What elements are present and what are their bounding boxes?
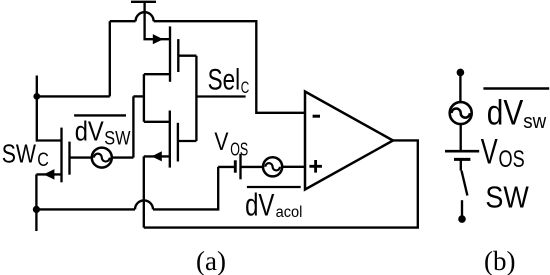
svg-text:Sel: Sel [208, 64, 241, 97]
svg-text:dV: dV [487, 94, 524, 133]
node bottom terminal dot [458, 215, 466, 223]
label dV_SW overline [74, 114, 126, 116]
transistor M2 source lead [144, 155, 170, 157]
svg-text:dV: dV [245, 188, 274, 223]
source dV_acol sine [265, 163, 280, 170]
svg-text:dV: dV [75, 114, 104, 146]
wire top rail right segment to minus-input riser [154, 21, 305, 113]
wire node A down to SW_C drain [37, 96, 62, 140]
source dV_SW sine [94, 154, 110, 162]
wire source to battery [460, 124, 462, 151]
op-amp minus sign [313, 115, 320, 118]
svg-text:OS: OS [499, 146, 525, 173]
switch SW blade [462, 171, 468, 196]
label dV_sw-b overline [483, 87, 549, 89]
source dV_SW circle [92, 148, 112, 168]
supply VDD bar [131, 1, 156, 3]
wire from hop to V_OS riser [153, 167, 218, 210]
wire switch lower stub [461, 200, 463, 218]
transistor M2 channel [169, 111, 171, 168]
wire VDD riser down to M1 drain [145, 2, 170, 39]
transistor SW_C arrow [44, 169, 55, 180]
op-amp U1 triangle [305, 92, 393, 190]
transistor M2 drain lead [144, 121, 170, 123]
svg-text:C: C [37, 150, 49, 171]
capacitor-battery V_OS short plate [234, 160, 237, 172]
svg-text:V: V [214, 128, 228, 156]
svg-text:SW: SW [104, 128, 131, 150]
svg-text:sw: sw [523, 111, 547, 133]
wire top rail left segment [110, 20, 136, 22]
transistor M2 arrow [152, 151, 162, 161]
node B junction dot [33, 206, 40, 213]
svg-text:SW: SW [485, 181, 529, 215]
transistor SW_C channel [60, 128, 62, 183]
wire stub above node A [36, 76, 38, 97]
wire node B right segment [36, 208, 135, 210]
source dV_acol circle [263, 157, 282, 176]
transistor SW_C source lead [36, 173, 61, 175]
node A junction dot [33, 93, 40, 100]
wire M2 source down to bottom rail [143, 156, 145, 227]
wire jog to dV_SW branch [133, 95, 144, 97]
battery V_OS-b long plate [445, 150, 479, 153]
battery V_OS-b short plate [454, 158, 470, 161]
wire dV_acol to plus input [282, 166, 305, 168]
wire left riser from top rail down [109, 21, 111, 96]
wire stub below node B [35, 209, 37, 231]
transistor M1 arrow [153, 34, 163, 44]
wire SW_C source down to node B [35, 174, 37, 209]
wire to battery negative plate [218, 166, 235, 168]
wire from node A to left riser [37, 95, 110, 97]
wire battery to switch [460, 159, 462, 170]
op-amp plus sign [309, 160, 322, 173]
wire gate tie line [195, 56, 197, 141]
capacitor-battery V_OS long plate [239, 154, 241, 180]
svg-text:C: C [241, 79, 250, 97]
transistor M2 gate lead [178, 140, 197, 142]
svg-text:V: V [481, 133, 498, 172]
wire branch down to dV_SW [132, 96, 134, 157]
svg-text:(a): (a) [196, 246, 226, 275]
wire hop over VDD riser [136, 12, 154, 21]
transistor M1 gate lead [178, 55, 196, 57]
source dV_sw-b circle [450, 102, 472, 124]
wire hop over M2-source line [135, 200, 153, 209]
transistor SW_C gate lead [70, 156, 92, 158]
svg-text:SW: SW [2, 138, 37, 168]
wire top terminal to source [459, 72, 461, 102]
svg-text:OS: OS [230, 139, 248, 159]
transistor M2 gate bar [177, 123, 179, 162]
transistor SW_C gate bar [68, 142, 70, 175]
wire battery to dV_acol source [241, 166, 264, 168]
wire Sel_C stub [196, 95, 245, 97]
wire dV_SW circle to branch [112, 156, 134, 158]
wire op-amp output feedback [144, 140, 418, 227]
svg-text:(b): (b) [484, 246, 515, 275]
svg-text:acol: acol [276, 204, 303, 221]
source dV_sw-b sine [452, 109, 470, 118]
wire M1 source to M2 drain [143, 74, 145, 122]
transistor M1 channel [169, 26, 171, 81]
node top terminal dot [457, 69, 465, 77]
label dV_acol overline [247, 186, 301, 188]
transistor M1 gate bar [177, 39, 179, 72]
transistor M1 source lead [144, 73, 170, 75]
